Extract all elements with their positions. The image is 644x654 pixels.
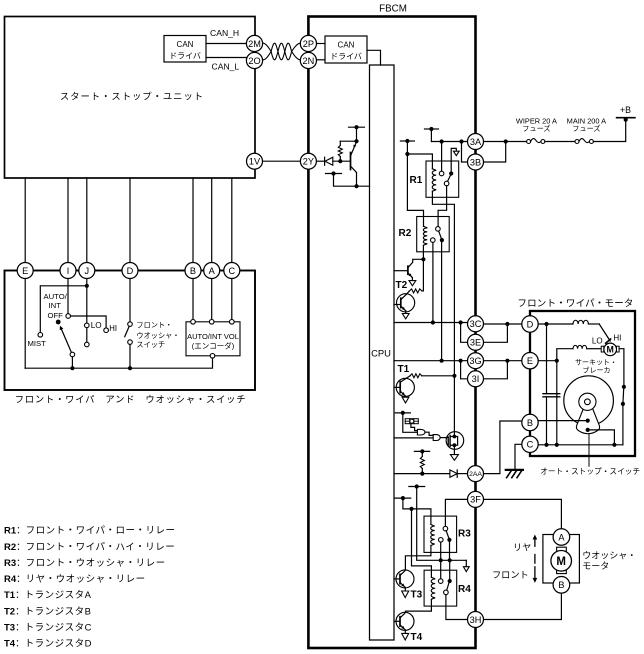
junction R1 contact rail [440, 139, 444, 143]
DA converter block [405, 419, 418, 424]
fuse MAIN 200A [575, 139, 593, 144]
wire 3E loop outside [483, 324, 507, 342]
connector 3G [468, 353, 484, 369]
emitter arrow T2 pre [409, 281, 416, 286]
relay R2 coil [423, 226, 427, 245]
svg-text:R1: R1 [410, 175, 423, 186]
svg-text:2Y: 2Y [303, 157, 314, 167]
svg-text:AUTO/INT VOL: AUTO/INT VOL [187, 332, 239, 341]
start-stop unit box [5, 17, 256, 179]
wire R1 coil to MOSFET drain [432, 191, 454, 431]
ground arrow T2 [402, 314, 409, 319]
junction J branch [85, 284, 89, 288]
wire R1 out to R2 [438, 186, 447, 227]
gate buffer 1 [417, 429, 425, 435]
label MIST [28, 339, 47, 348]
washer motor box [543, 535, 580, 584]
wire DA to gate1 [411, 424, 418, 431]
svg-text:3H: 3H [470, 615, 482, 625]
svg-text:2N: 2N [303, 56, 315, 66]
wire 2Y to diode [316, 160, 324, 162]
transistor T2 power [394, 294, 415, 314]
wire stub to gate1 [403, 413, 417, 432]
svg-text:ウオッシャ・: ウオッシャ・ [136, 331, 179, 340]
wire terminal J down [86, 278, 88, 323]
svg-text:R1：フロント・ワイパ・ロー・リレー: R1：フロント・ワイパ・ロー・リレー [4, 526, 175, 537]
contact R2 movable [440, 238, 444, 242]
switch common rail [25, 358, 212, 368]
label HI position [109, 324, 117, 333]
relay R3 box [424, 516, 457, 552]
contact R3 out [439, 538, 444, 543]
wire coil feed to R2 [407, 154, 423, 226]
wire diode to base node [333, 160, 351, 162]
connector 3H [468, 612, 484, 628]
connector 1V [247, 153, 263, 169]
relay R4 coil [431, 577, 435, 599]
wire 3I tie [461, 361, 468, 379]
connector 3B [468, 154, 484, 170]
junction R2out-3C [431, 320, 435, 324]
svg-text:LO: LO [592, 337, 603, 346]
wire R3 movable down [449, 542, 451, 560]
wire LO node down [556, 361, 558, 445]
svg-text:フロント・: フロント・ [136, 321, 172, 330]
label R2 [399, 228, 412, 239]
wire E to LO node [538, 360, 557, 362]
svg-text:B: B [527, 418, 533, 428]
svg-text:2P: 2P [303, 39, 314, 49]
transistor Q2Y [351, 142, 357, 186]
wire M to breaker [619, 349, 624, 385]
terminal J [79, 263, 95, 279]
svg-text:ブレーカ: ブレーカ [583, 366, 611, 375]
label LO position [91, 321, 102, 330]
junction LO node [555, 359, 559, 363]
svg-text:3B: 3B [470, 157, 481, 167]
wire 2AA to motor B [483, 421, 522, 474]
lever washer switch [125, 326, 130, 336]
contact R4 in [438, 579, 443, 584]
wire start-stop unit to terminal A [211, 178, 213, 263]
wire start-stop unit to terminal C [231, 178, 233, 263]
svg-text:T4：トランジスタD: T4：トランジスタD [4, 639, 92, 650]
direction arrow dash [534, 555, 536, 564]
svg-text:R4: R4 [458, 584, 471, 595]
svg-text:E: E [527, 356, 533, 366]
wire coil to M [587, 348, 602, 350]
wiper switch box [5, 271, 256, 391]
svg-text:リヤ: リヤ [513, 542, 531, 552]
wire D to HI coil [538, 323, 573, 325]
ground arrow T1 [402, 397, 409, 403]
svg-text:2AA: 2AA [469, 471, 482, 478]
svg-text:CAN_L: CAN_L [212, 62, 240, 72]
svg-text:R2: R2 [399, 228, 412, 239]
connector 3C [468, 316, 484, 332]
junction stop-rail [612, 443, 616, 447]
lever R1 [448, 175, 451, 181]
svg-text:A: A [558, 532, 565, 542]
svg-text:T4: T4 [411, 632, 423, 643]
wire stub to coil node [403, 498, 412, 509]
wire C to ground [515, 444, 522, 470]
wire R3 coil to T3 [405, 546, 431, 571]
label T4 [411, 632, 423, 643]
svg-text:AUTO/: AUTO/ [44, 292, 68, 301]
svg-text:A: A [209, 266, 216, 276]
washer brush top [557, 547, 567, 551]
node stub R1 coil feed [400, 139, 414, 143]
svg-text:INT: INT [49, 301, 62, 310]
wire 3E tie [461, 323, 468, 343]
ground arrow MOSFET [450, 455, 458, 461]
FBCM box [308, 17, 475, 649]
junction washer-rail [128, 366, 132, 370]
AUTO/INT VOL encoder box [186, 322, 240, 356]
legend T4 [4, 639, 92, 650]
wire washer B to 3H [483, 593, 561, 620]
svg-text:サーキット・: サーキット・ [575, 359, 617, 367]
twisted pair wire CAN_L [263, 43, 301, 60]
junction 3I outside [505, 359, 509, 363]
node stub R1 rail [425, 127, 439, 131]
junction 3B outside [504, 139, 508, 143]
inductor HI [573, 320, 588, 324]
svg-text:スイッチ: スイッチ [136, 340, 165, 349]
svg-text:R3: R3 [458, 529, 471, 540]
svg-text:R4：リヤ・ウオッシャ・リレー: R4：リヤ・ウオッシャ・リレー [4, 574, 146, 585]
wire 3C to D [483, 323, 522, 325]
svg-text:HI: HI [109, 324, 117, 333]
label rear [513, 542, 531, 552]
svg-text:C: C [228, 266, 235, 276]
svg-text:オート・ストップ・スイッチ: オート・ストップ・スイッチ [540, 467, 640, 476]
connector 2P [300, 35, 316, 51]
contact encoder C [230, 320, 235, 325]
auto-stop cam ring [579, 393, 596, 410]
wire R3 common [417, 487, 467, 561]
legend R3 [4, 558, 166, 569]
contact OFF [66, 314, 71, 319]
wire CPU to T2 base [394, 270, 408, 272]
wire start-stop unit to terminal B [192, 178, 194, 263]
svg-text:C: C [527, 440, 534, 450]
gate buffer 2 [433, 435, 440, 441]
legend T1 [4, 590, 92, 601]
svg-text:T1：トランジスタA: T1：トランジスタA [4, 590, 92, 601]
terminal A switch [204, 263, 220, 279]
wire CPU to gate2 [394, 437, 433, 439]
washer brush bottom [557, 569, 567, 573]
diode at 2Y [325, 157, 333, 165]
svg-text:スタート・ストップ・ユニット: スタート・ストップ・ユニット [60, 92, 204, 102]
label circuit breaker [575, 359, 617, 375]
terminal B switch [185, 263, 201, 279]
wire R4 out to 3H [446, 595, 468, 620]
resistor pullup [420, 451, 424, 473]
wire CAN driver to CPU [367, 50, 381, 65]
wire 3G to E [483, 360, 522, 362]
wire T1 resistor to drain line [422, 375, 455, 377]
wire R3 movable to R4 contact [449, 560, 451, 579]
svg-text:フロント・ワイパ・モータ: フロント・ワイパ・モータ [517, 299, 633, 310]
resistor base-emitter [338, 141, 342, 161]
svg-text:1V: 1V [249, 157, 261, 167]
svg-text:CAN: CAN [177, 40, 194, 49]
wire LO stub [86, 328, 88, 343]
svg-text:ウオッシャ・: ウオッシャ・ [582, 550, 636, 560]
svg-text:3A: 3A [470, 137, 482, 147]
svg-text:T2：トランジスタB: T2：トランジスタB [4, 606, 91, 617]
wire collector rail to CPU [334, 174, 370, 187]
label FBCM [379, 4, 407, 15]
junction 3I tie [459, 359, 463, 363]
relay R2 box [417, 217, 450, 252]
wire emitter node to stub [356, 127, 358, 141]
junction cap-rail [544, 443, 548, 447]
contact R4 out [444, 590, 449, 595]
svg-text:LO: LO [91, 321, 102, 330]
wire stub down [406, 141, 408, 154]
svg-text:B: B [558, 580, 564, 590]
brush HI [606, 339, 611, 343]
label AUTO/INT [44, 292, 68, 310]
contact encoder B [191, 320, 196, 325]
svg-text:フューズ: フューズ [572, 124, 600, 133]
contact washer switch top [128, 322, 133, 327]
label front washer switch [136, 321, 179, 349]
connector 2O [246, 52, 262, 68]
junction 3E outside [505, 322, 509, 326]
junction emitter node [354, 139, 358, 143]
svg-text:モータ: モータ [582, 561, 609, 571]
legend R2 [4, 542, 175, 553]
label LO [592, 337, 603, 346]
wire terminal A down [211, 278, 213, 319]
legend T2 [4, 606, 91, 617]
label T1 [398, 364, 410, 375]
CAN driver box right [325, 36, 367, 63]
svg-text:I: I [67, 266, 70, 276]
label washer motor [582, 550, 636, 571]
motor M wiper [604, 343, 617, 356]
junction T2 collector [421, 257, 425, 261]
wire terminal C down [231, 278, 233, 319]
junction base node [338, 159, 342, 163]
contact R2 out [431, 238, 436, 243]
wire 2N to CAN driver [316, 59, 325, 61]
connector 2N [300, 52, 316, 68]
wire resistor top to emitter node [340, 140, 356, 142]
wire diode to 2AA [457, 473, 468, 475]
label R4 [458, 584, 471, 595]
junction T1-drain line [452, 374, 456, 378]
actuation arrow R3/R4 [463, 560, 469, 571]
connector 3A [468, 134, 484, 150]
contact encoder A [209, 320, 214, 325]
junction LO-rail [555, 443, 559, 447]
wire node to R4 coil [412, 509, 432, 577]
diode to 2AA [450, 470, 457, 477]
brush M right [617, 346, 620, 352]
contact R4 movable [448, 579, 452, 583]
terminal D switch [122, 263, 138, 279]
lever R2 [439, 231, 442, 238]
svg-text:OFF: OFF [48, 311, 64, 320]
wire 3B loop outside [483, 142, 505, 163]
contact arm pivot [70, 352, 75, 357]
direction arrow rear [533, 535, 538, 547]
resistor T1 [410, 374, 422, 378]
legend R1 [4, 526, 175, 537]
wire R2 movable to 3G [441, 242, 443, 361]
washer motor M [551, 551, 572, 572]
label R3 [458, 529, 471, 540]
wire 3A to fuse [483, 141, 526, 143]
label CAN_L [212, 62, 240, 72]
label T3 [411, 590, 423, 601]
label MAIN 200A fuse [567, 116, 607, 133]
node stub pullup [414, 449, 429, 453]
junction collector [354, 184, 358, 188]
connector 2AA [468, 466, 484, 482]
wire LO node up [557, 349, 573, 361]
wire 3I loop outside [483, 361, 507, 379]
svg-text:E: E [22, 266, 28, 276]
junction 3E tie [459, 320, 463, 324]
power +B [617, 105, 635, 122]
junction R3 out [439, 558, 443, 562]
wire feed to R1 coil [407, 154, 432, 169]
contact R2 in [436, 227, 441, 232]
front wiper motor box [530, 311, 635, 456]
terminal C motor [522, 436, 538, 452]
contact R1 movable [449, 171, 453, 175]
wire terminal I down [67, 278, 69, 313]
svg-text:B: B [190, 266, 196, 276]
wire washer switch to rail [129, 344, 131, 368]
relay R3 coil [431, 525, 435, 546]
contact MIST [38, 333, 43, 338]
wire CAN_H left [206, 43, 247, 45]
terminal C switch [224, 263, 240, 279]
actuation arrow R1 [451, 148, 459, 171]
terminal E [17, 263, 33, 279]
svg-text:CAN_H: CAN_H [210, 28, 239, 38]
contact LO [85, 323, 90, 328]
svg-text:R3：フロント・ウオッシャ・リレー: R3：フロント・ウオッシャ・リレー [4, 558, 166, 569]
svg-text:FBCM: FBCM [379, 4, 407, 15]
svg-text:3I: 3I [472, 374, 480, 384]
wire start-stop unit to terminal I [67, 178, 69, 263]
wire CAN_L left [206, 57, 248, 59]
contact R1 out [444, 181, 449, 186]
svg-text:2M: 2M [248, 39, 261, 49]
junction R2mov-3G [440, 359, 444, 363]
svg-text:CAN: CAN [338, 41, 355, 50]
wire CPU to 3C [394, 322, 468, 324]
auto-stop cam plate [576, 409, 599, 434]
lever R4 [447, 583, 449, 590]
wire fuse to fuse [545, 141, 575, 143]
wire start-stop unit to terminal E [24, 178, 26, 263]
wire auto-stop to rail [588, 430, 615, 445]
label T2 [396, 280, 408, 291]
label CAN_H [210, 28, 239, 38]
legend R4 [4, 574, 146, 585]
wire fuse to +B [593, 118, 625, 142]
svg-text:+B: +B [620, 105, 631, 115]
wire 1V to 2Y [262, 160, 300, 162]
wiper arm [56, 320, 72, 353]
junction R3 movable [448, 558, 452, 562]
wire CPU to 3G [394, 360, 468, 362]
capacitor [543, 324, 560, 445]
wire terminal B down [192, 278, 194, 319]
junction 3B rail [459, 139, 463, 143]
CPU box [370, 65, 395, 640]
terminal B washer [553, 577, 570, 594]
label wiper washer switch [15, 394, 247, 404]
svg-text:MIST: MIST [28, 339, 47, 348]
svg-text:フューズ: フューズ [522, 124, 550, 133]
contact HI [104, 328, 109, 333]
inductor LO [573, 345, 587, 348]
wire rail to 3A [431, 141, 467, 143]
node stub relay coil feed [395, 496, 411, 500]
wire coil to HI diagonal [588, 324, 610, 341]
junction capacitor top [544, 322, 548, 326]
connector 2M [246, 35, 262, 51]
relay R4 box [424, 570, 457, 606]
CAN driver box left [164, 36, 206, 63]
legend T3 [4, 623, 92, 634]
wire start-stop unit to terminal D [129, 178, 131, 263]
wire pivot to rail [71, 357, 73, 368]
wire rail to 3B [462, 142, 468, 163]
svg-text:D: D [127, 266, 134, 276]
chassis ground [506, 470, 523, 478]
wire R1 NO contact to rail [441, 142, 443, 172]
motor armature [564, 376, 614, 426]
transistor T1 [394, 376, 414, 397]
wire R3 out down [440, 542, 442, 560]
contact auto-stop out [586, 428, 590, 432]
lever R3 [446, 531, 449, 538]
ground arrow T4 [402, 633, 409, 640]
svg-text:HI: HI [613, 334, 621, 343]
svg-text:フロント: フロント [492, 570, 529, 580]
label R1 [410, 175, 423, 186]
junction arm-rail [70, 366, 74, 370]
svg-text:CPU: CPU [371, 348, 391, 359]
wire gate2 to MOSFET gate [440, 437, 448, 439]
node stub R3 common [409, 484, 425, 488]
contact encoder common [210, 354, 215, 359]
ground arrow T3 [402, 591, 409, 598]
connector 3E [468, 334, 484, 350]
transistor T3 [394, 570, 414, 591]
connector 2Y [300, 153, 316, 169]
twisted pair wire CAN_H [263, 43, 301, 60]
brush M left [601, 346, 604, 352]
wire R3 out to R4 contact [440, 560, 442, 579]
wire stub to rail [430, 129, 432, 142]
wire R2 out to 3C [432, 242, 434, 322]
wire B to brush contact [538, 420, 588, 422]
svg-text:3F: 3F [470, 495, 481, 505]
